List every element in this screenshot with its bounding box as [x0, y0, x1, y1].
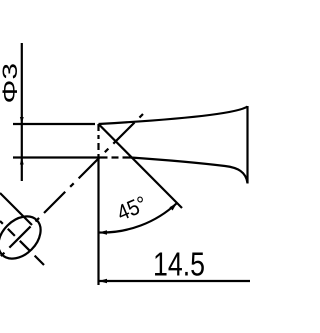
centerline dash-dot from tip to ellipse	[0, 114, 143, 257]
horn bottom curve	[131, 158, 248, 184]
arrow left at (98.5,280)	[99, 279, 108, 283]
arrow at arc end (175,200.3) pointing up-right	[169, 203, 177, 211]
bevel face line extended to 45deg leg	[99, 124, 183, 208]
svg-text:Φ3: Φ3	[0, 63, 22, 104]
vertical extension line below tip	[97, 158, 99, 286]
horn right edge	[246, 106, 248, 184]
dimension line phi3 vertical	[21, 43, 23, 181]
bevel face ellipse (auxiliary view)	[0, 208, 49, 267]
arrow left at arc end (98.5,232)	[99, 230, 108, 234]
ellipse minor axis dash-dot	[0, 221, 44, 265]
hidden dashed vertical at tip	[97, 124, 99, 158]
hidden dashed horizontal at tip bottom	[99, 156, 134, 158]
arrow down at (21,124)	[20, 117, 24, 124]
svg-text:14.5: 14.5	[153, 246, 205, 283]
extension line top (phi3)	[13, 123, 95, 125]
extension line bottom (phi3 / tip bottom)	[13, 156, 99, 158]
leader line from upper left to centerline	[0, 193, 32, 225]
45deg arc	[99, 203, 178, 233]
tip top outline (horn top curve)	[99, 107, 248, 125]
arrow up at (21,157.5)	[20, 158, 24, 165]
14.5 dimension line	[99, 280, 251, 282]
